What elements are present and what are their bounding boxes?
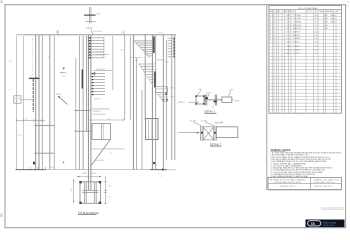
ground datum line (16, 169, 46, 171)
counterweight frame line lower (75, 130, 91, 132)
svg-text:0'-1: 0'-1 (315, 53, 318, 55)
table row lines (269, 17, 342, 110)
svg-text:A36: A36 (324, 27, 327, 30)
svg-text:C8X11.5: C8X11.5 (93, 111, 102, 113)
svg-text:0'-2: 0'-2 (315, 46, 318, 48)
svg-text:W8X24: W8X24 (178, 102, 185, 104)
left view small arrow note (63, 68, 65, 70)
detail B bolts (201, 132, 203, 134)
middle band (82, 189, 98, 191)
left view upper dim line (17, 119, 46, 121)
svg-text:2: 2 (273, 18, 274, 20)
left elevation column flange lines (32, 38, 34, 76)
svg-text:C8X11.5: C8X11.5 (287, 22, 291, 24)
detail B left flange pair (200, 126, 202, 141)
svg-text:18'-2: 18'-2 (315, 15, 319, 17)
view4 lower stair (156, 93, 168, 102)
svg-text:6: 6 (270, 32, 271, 34)
view3 stair diagonal (134, 41, 150, 58)
svg-text:COLUMN: COLUMN (293, 15, 301, 17)
svg-text:W8X24: W8X24 (287, 18, 291, 20)
svg-text:6": 6" (110, 153, 112, 155)
section detail A (plan) (178, 89, 240, 114)
detail A left square (196, 96, 204, 104)
column splice detail (top middle) (84, 7, 101, 35)
svg-text:T.O.S.: T.O.S. (158, 33, 164, 35)
left elevation rail bracket (dark tee) (29, 77, 40, 79)
svg-text:L3X3X1/4: L3X3X1/4 (96, 69, 106, 71)
svg-text:DESCRIPTION: DESCRIPTION (283, 11, 295, 13)
svg-text:SK: SK (311, 222, 316, 226)
svg-text:4: 4 (273, 42, 274, 44)
svg-text:6'-8: 6'-8 (315, 22, 318, 24)
svg-text:2: 2 (273, 15, 274, 17)
table data text (270, 14, 336, 55)
counterweight frame line upper (75, 109, 91, 111)
svg-text:8: 8 (270, 38, 271, 40)
svg-text:9: 9 (270, 42, 271, 44)
svg-text:0'-10: 0'-10 (315, 32, 319, 34)
pit support box (92, 124, 111, 140)
svg-text:LGTH: LGTH (307, 11, 312, 13)
section detail B (brace section) (179, 120, 238, 146)
svg-text:L4X4X3/8: L4X4X3/8 (287, 42, 291, 44)
svg-text:PL 1/2: PL 1/2 (14, 98, 21, 100)
pit floor line (91, 148, 125, 150)
view3 plate rect (146, 119, 159, 140)
svg-text:A36: A36 (324, 14, 327, 17)
svg-text:W/ 3/4 BOLTS: W/ 3/4 BOLTS (93, 114, 106, 116)
svg-text:CHANNEL: CHANNEL (293, 21, 302, 24)
svg-text:1: 1 (270, 15, 271, 17)
header labels (270, 10, 340, 13)
svg-text:0'-3: 0'-3 (315, 50, 318, 52)
scan artifact bottom-left (0, 214, 2, 218)
detail A right plate (222, 97, 232, 103)
svg-text:2": 2" (9, 90, 11, 92)
svg-text:1/2 PL: 1/2 PL (206, 92, 213, 94)
svg-text:BRACE: BRACE (293, 41, 300, 44)
svg-text:W8X24: W8X24 (287, 15, 291, 17)
svg-text:16'-0: 16'-0 (315, 18, 319, 20)
svg-text:3": 3" (158, 174, 160, 176)
svg-text:BASE PL: BASE PL (293, 31, 301, 34)
inner verticals (83, 182, 85, 204)
table verticals (272, 10, 336, 114)
view3 dark rail bar (153, 37, 155, 54)
left view bracket level lower (34, 152, 54, 154)
svg-text:GUSSET: GUSSET (293, 38, 301, 40)
svg-text:SCALE: 3/8"=1': SCALE: 3/8"=1' (280, 185, 297, 188)
left elevation: extension line B (23, 36, 25, 170)
hoistway centerline long (124, 35, 126, 120)
pit dimension line (89, 119, 124, 121)
mid leader line + labels (91, 108, 110, 110)
bottom pit plan detail (71, 173, 112, 215)
svg-text:L4X4X3/8: L4X4X3/8 (95, 160, 105, 162)
rail bolt dots group 1 (89, 37, 91, 58)
counterweight guide lines (75, 58, 77, 170)
svg-text:GALV: GALV (330, 21, 335, 24)
left view leader arrow (58, 96, 68, 105)
hoistway wall line (112, 36, 114, 90)
top datum line (16, 34, 23, 36)
svg-text:DETAIL 2: DETAIL 2 (210, 142, 222, 146)
bracket rungs group 1 (91, 38, 104, 58)
svg-text:L3X3X1/4: L3X3X1/4 (287, 25, 291, 27)
svg-text:3/4 A325: 3/4 A325 (293, 45, 300, 48)
scan artifact right edge (348, 1, 349, 3)
detail B right flange pair (213, 126, 215, 141)
svg-text:PL 1/2: PL 1/2 (287, 35, 291, 37)
view3 rail pair (151, 35, 153, 170)
diagonal brace (91, 140, 111, 167)
svg-text:TYP: TYP (170, 96, 175, 98)
svg-text:5/8 BOLT: 5/8 BOLT (157, 60, 166, 62)
svg-text:0'-8: 0'-8 (315, 38, 318, 40)
left view bottom tick row (29, 167, 31, 170)
svg-text:DETAIL 1: DETAIL 1 (205, 110, 217, 114)
detail A flanges (204, 95, 206, 106)
svg-text:3: 3 (270, 22, 271, 24)
bill of material table (269, 6, 342, 114)
svg-text:GUIDE RAIL SUPPORTS: GUIDE RAIL SUPPORTS (274, 181, 302, 184)
view4 rung stubs (168, 38, 172, 57)
svg-text:DETAILS INC: DETAILS INC (323, 224, 336, 227)
svg-text:2: 2 (48, 56, 49, 58)
svg-text:1/2 PL: 1/2 PL (91, 173, 98, 175)
svg-text:3" TYP: 3" TYP (96, 52, 103, 54)
weld dot (93, 72, 95, 74)
svg-text:BRACKET: BRACKET (293, 24, 302, 27)
svg-text:2: 2 (270, 18, 271, 20)
detail A centerline (212, 106, 214, 109)
svg-text:3/4 A325: 3/4 A325 (293, 49, 300, 52)
svg-text:COLUMN: COLUMN (293, 18, 301, 20)
svg-text:8: 8 (273, 28, 274, 30)
rail bolt dots group 2 (92, 73, 94, 95)
svg-text:4'-6: 4'-6 (315, 42, 318, 44)
svg-text:1'-2: 1'-2 (315, 28, 318, 30)
left elevation dimension box (14, 96, 21, 104)
svg-text:2: 2 (273, 32, 274, 34)
logo box (306, 220, 345, 228)
svg-text:GALV: GALV (330, 14, 335, 17)
detail B X brace (203, 127, 214, 140)
svg-text:CHECKED: RW S-4: CHECKED: RW S-4 (314, 182, 335, 184)
right panel divider (266, 5, 268, 190)
svg-text:3/4 B: 3/4 B (235, 100, 240, 102)
ladder cage edge line (103, 37, 105, 58)
svg-text:8: 8 (273, 25, 274, 27)
view3 stair brackets top (134, 41, 152, 56)
top dim line (77, 176, 102, 178)
svg-text:L3X3X1/4: L3X3X1/4 (287, 28, 291, 30)
svg-text:PIT PLAN DETAIL: PIT PLAN DETAIL (78, 211, 100, 215)
view4 dark rail bar (173, 38, 175, 58)
left elevation: extension line A (16, 36, 18, 170)
svg-text:4: 4 (270, 25, 271, 27)
svg-text:3/8 PL: 3/8 PL (56, 94, 63, 96)
svg-text:1/4" PL: 1/4" PL (94, 99, 101, 101)
svg-text:WT: WT (337, 11, 340, 13)
bracket rungs group 2 (93, 74, 105, 95)
svg-text:2-L3X3: 2-L3X3 (201, 120, 208, 122)
left elevation anchor dot (33, 162, 35, 165)
detail B right plate rect (216, 127, 238, 138)
svg-text:7: 7 (270, 35, 271, 37)
right elevation (view 3) verticals (129, 36, 131, 120)
svg-text:BASE PL: BASE PL (293, 34, 301, 37)
guide rail pair (middle ladder stringers) (87, 35, 89, 190)
view3 stair brackets lower (139, 64, 155, 82)
svg-text:5: 5 (270, 28, 271, 30)
svg-text:REMARK: REMARK (326, 10, 334, 13)
title block (268, 177, 342, 190)
corner angles (79, 181, 81, 183)
svg-text:2: 2 (273, 35, 274, 37)
view4 bracket box (156, 87, 168, 93)
view 4 verticals (162, 35, 164, 170)
counterweight rail dark bar (81, 70, 83, 89)
svg-text:A36: A36 (324, 17, 327, 20)
svg-text:BRACKET: BRACKET (293, 27, 302, 30)
svg-text:EL 100'-0: EL 100'-0 (94, 31, 103, 33)
svg-text:W8X24: W8X24 (86, 28, 93, 30)
svg-text:PL 3/8: PL 3/8 (287, 38, 291, 40)
svg-text:PL 1/2: PL 1/2 (287, 32, 291, 34)
svg-text:A36: A36 (324, 21, 327, 24)
view3 base bolt (153, 162, 155, 164)
svg-text:CAMB: CAMB (319, 10, 325, 13)
svg-text:1'-2: 1'-2 (315, 25, 318, 27)
svg-text:GALV: GALV (330, 17, 335, 20)
right dim (104, 176, 106, 204)
outer square (80, 182, 101, 204)
svg-text:JOB NO: 04-118: JOB NO: 04-118 (314, 186, 332, 188)
scan artifact top-left (1, 1, 3, 4)
svg-text:4: 4 (273, 22, 274, 24)
svg-text:A36: A36 (324, 24, 327, 27)
svg-text:3/4 HVY: 3/4 HVY (293, 53, 300, 55)
left view bracket level upper (34, 125, 54, 127)
general notes (271, 149, 342, 178)
detail B leader arrow (179, 132, 200, 134)
svg-text:0'-10: 0'-10 (315, 35, 319, 37)
svg-text:TYP: TYP (165, 62, 170, 64)
svg-text:4: 4 (273, 38, 274, 40)
left dim (73, 179, 75, 203)
